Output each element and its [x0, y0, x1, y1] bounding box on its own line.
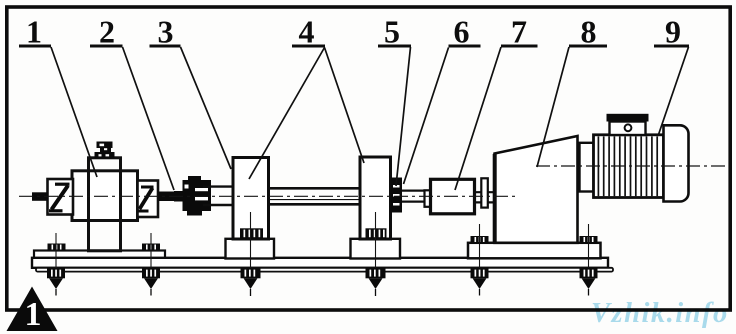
main baseplate [32, 258, 608, 268]
figure number triangle [7, 287, 58, 332]
svg-text:4: 4 [299, 14, 315, 50]
pedestal under pillar P1 [226, 239, 275, 259]
machine M1 right disc [138, 181, 159, 218]
machine M1 left shaft stub [32, 192, 48, 201]
safety clutch disc (items 5/6) [391, 178, 403, 213]
coupling C7 body [431, 179, 475, 214]
machine M1 hub block [72, 171, 138, 221]
anchor bolts of machine M1 on foot plate [48, 244, 161, 251]
svg-text:3: 3 [158, 14, 174, 50]
label 3 [150, 14, 232, 170]
motor axis centerline [536, 165, 728, 167]
svg-text:1: 1 [25, 296, 42, 333]
baseplate bottom lip [36, 268, 613, 272]
label 4 [249, 14, 364, 180]
machine M1 right shaft stub [158, 192, 175, 202]
anchor bolt nuts and tips below baseplate [47, 268, 598, 296]
motor fan cover [664, 125, 689, 201]
motor cooling fins [598, 136, 657, 196]
svg-text:Vzhik.info: Vzhik.info [591, 298, 729, 329]
nut on pedestal P2 [366, 228, 387, 239]
label 2 [90, 14, 174, 191]
bearing pillar P1 [233, 158, 269, 240]
machine M1 body column [89, 158, 121, 251]
shaft C2 to pillar P1 [203, 187, 233, 205]
label 5 [378, 14, 411, 187]
machine M1 left disc [48, 179, 74, 215]
label 8 [537, 14, 607, 168]
svg-text:6: 6 [454, 14, 470, 50]
pedestal under pillar P2 [351, 239, 401, 259]
gearbox housing (item 8) [495, 136, 578, 243]
label 6 [404, 14, 481, 185]
bolt head on gearbox plate right [580, 236, 598, 243]
machine M1 top cap [95, 142, 115, 159]
motor finned body (item 9) [594, 135, 664, 198]
motor terminal box [607, 114, 649, 122]
test shaft between pillars [269, 188, 361, 204]
machine M1 left disc spiral mark [49, 184, 70, 211]
coupling C2 link [174, 191, 184, 202]
svg-text:9: 9 [665, 14, 681, 50]
machine M1 right disc spiral mark [138, 187, 154, 211]
shaft C7 to gearbox [475, 192, 495, 202]
nut on pedestal P1 [240, 228, 263, 239]
bolt centerlines [56, 212, 589, 268]
main shaft centerline [19, 195, 519, 197]
motor flange [580, 143, 594, 192]
svg-text:5: 5 [384, 14, 400, 50]
label 7 [455, 14, 538, 191]
label 1 [19, 14, 97, 178]
coupling C2 body [183, 180, 212, 211]
coupling C7 left flange [425, 190, 431, 207]
bolt head on gearbox plate left [471, 236, 489, 243]
svg-text:1: 1 [26, 14, 42, 50]
gearbox foot plate [468, 243, 601, 258]
shaft to coupling C7 [402, 191, 425, 202]
baseplate foot plate of machine M1 [34, 251, 165, 259]
svg-text:8: 8 [581, 14, 597, 50]
bearing pillar P2 [360, 157, 391, 239]
gearbox input flange [481, 178, 488, 207]
svg-text:7: 7 [511, 14, 527, 50]
label 9 [654, 14, 689, 137]
svg-text:2: 2 [99, 14, 115, 50]
